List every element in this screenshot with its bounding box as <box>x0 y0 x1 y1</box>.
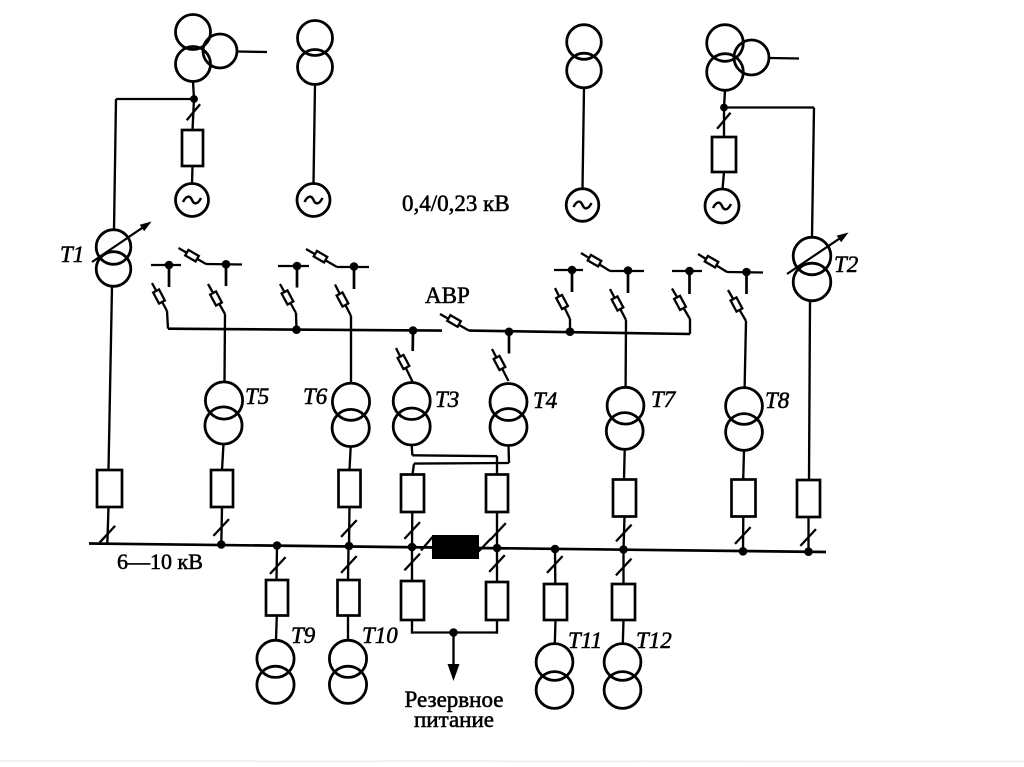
wire (group 2 right feeder drop) <box>350 316 352 383</box>
wire (0.4kV bus right section) <box>469 331 690 334</box>
switch-fuse blade (group 1 left feeder, open) <box>152 283 167 311</box>
node A (left junction) <box>190 95 198 103</box>
disconnector slash (T6 column) <box>341 520 357 537</box>
wire (node A to T1 branch) <box>116 98 194 100</box>
wire (T4 to crossover) <box>507 446 510 464</box>
svg-text:T12: T12 <box>636 628 672 653</box>
wire (T4 crossover fuse to bus) <box>411 512 414 547</box>
svg-text:T1: T1 <box>60 242 84 267</box>
wire (reserve right drop) <box>496 548 498 582</box>
fuse (T9 column) <box>266 580 288 616</box>
transformer T5 <box>205 382 242 419</box>
fuse F2 (T2 column) <box>797 480 820 517</box>
disconnector slash (reserve left below bus) <box>404 554 420 571</box>
transformer T3 <box>393 383 430 420</box>
node (group 1 right tap) <box>222 260 231 269</box>
wire (node B down to fuse) <box>723 108 725 138</box>
svg-text:T9: T9 <box>291 623 316 648</box>
arrow to reserve supply <box>452 633 454 667</box>
fuse (T3 crossover column) <box>486 475 508 513</box>
fuse (reserve left) <box>401 581 424 620</box>
disconnector slash (T10 column) <box>341 556 357 573</box>
AC source G2 (~) column 3 <box>566 189 599 222</box>
wire (reserve left drop) <box>411 547 413 581</box>
node (T4 crossover on 6-10kV bus) <box>408 543 417 552</box>
wire (group 3 right contact stub) <box>627 271 630 294</box>
fuse F1 (T1 column) <box>97 470 122 507</box>
wire (group 4 right contact stub) <box>745 272 748 294</box>
transformer T4 <box>490 384 527 421</box>
transformer T2 (with tap-change arrow) <box>793 237 831 275</box>
wire (fuse to AC source) <box>723 172 725 189</box>
transformer T1 (with tap-change arrow) <box>96 230 131 265</box>
network transformer (column 2) <box>298 21 333 56</box>
wire (T5 to fuse) <box>222 444 224 470</box>
fuse (left feeder column) <box>182 130 203 166</box>
node (reserve junction) <box>449 628 458 637</box>
switch-fuse blade (T3 feeder, open) <box>396 348 413 382</box>
disconnector slash (T7 column) <box>616 525 632 542</box>
disconnector slash (T4 crossover above bus) <box>404 522 420 539</box>
svg-text:T8: T8 <box>765 388 790 413</box>
wire (T5 fuse to bus) <box>220 507 223 545</box>
fuse (T10 column) <box>338 580 360 616</box>
switch-fuse blade (T4 feeder, open) <box>492 349 509 381</box>
wire (fuse F1 to bus) <box>107 507 108 545</box>
switch-fuse blade (group 4 left feeder, open) <box>672 289 690 320</box>
node (T4 tap on 0.4kV bus) <box>505 328 514 337</box>
wire (group 4 left feeder to 0.4kV bus) <box>689 319 691 334</box>
fuse (T5 column) <box>211 470 233 507</box>
network transformer (column 3) <box>567 25 602 60</box>
wire (column 2 drop) <box>314 85 316 184</box>
wire (group 4 right feeder drop) <box>745 321 746 388</box>
wire (group 1 right contact stub) <box>225 264 228 286</box>
disconnector slash (T12 column) <box>616 559 632 576</box>
switch-fuse blade (group 3 line tie, open) <box>581 253 610 271</box>
wire (group 3 right 0.4kV line segment) <box>610 270 644 272</box>
disconnector slash (T8 column) <box>735 527 751 544</box>
switch-fuse blade (group 4 right feeder, open) <box>728 290 746 321</box>
transformer T6 <box>332 383 369 420</box>
wire (T3 contact stub) <box>411 331 414 352</box>
wire (T3 crossover fuse to bus) <box>496 512 498 548</box>
node (T3 tap on 0.4kV bus) <box>409 326 418 335</box>
disconnector slash (T11 column) <box>547 556 563 573</box>
svg-text:T10: T10 <box>362 623 398 648</box>
wire (group 1 left 0.4kV line segment) <box>151 264 181 266</box>
wire (reserve junction) <box>412 631 497 633</box>
wire (group 2 left 0.4kV line segment) <box>278 265 309 267</box>
transformer T8 <box>726 388 763 425</box>
disconnector slash (T2 column) <box>800 529 816 546</box>
node B (right junction) <box>720 104 728 112</box>
fuse (T6 column) <box>339 470 361 507</box>
wire (T10 fuse to transformer) <box>347 616 349 641</box>
node (group 2 right tap) <box>350 262 359 271</box>
wire (T9 bus to fuse) <box>275 546 278 581</box>
switch-fuse blade (AVR tie, open) <box>440 314 469 331</box>
wire (T9 fuse to transformer) <box>275 616 278 641</box>
svg-text:T3: T3 <box>435 387 459 412</box>
fuse (T4 crossover column) <box>401 475 424 513</box>
wire (T2 down to fuse F2) <box>809 301 810 480</box>
bus 6-10 kV <box>89 544 826 553</box>
disconnector slash (below node A) <box>187 104 200 120</box>
wire (group 3 left contact stub) <box>571 270 574 292</box>
disconnector slash (reserve right below bus) <box>489 555 505 572</box>
transformer T7 <box>607 387 644 424</box>
node (group 4 left tap) <box>685 267 694 276</box>
wire (reserve left below fuse) <box>411 620 413 634</box>
transformer T9 <box>257 640 294 677</box>
wire (reserve right below fuse) <box>496 620 498 634</box>
wire (fuse F2 to bus) <box>807 517 809 552</box>
disconnector slash (T9 column) <box>270 557 286 574</box>
svg-text:T7: T7 <box>651 387 677 412</box>
wire (T11 fuse to transformer) <box>554 620 557 644</box>
fuse (T8 column) <box>732 480 756 517</box>
wire (group 3 left 0.4kV line segment) <box>554 269 583 271</box>
reserve tie fuse-switch (closed, filled) <box>432 535 479 559</box>
node (group 1 left tap) <box>165 261 174 270</box>
transformer T12 <box>604 644 641 681</box>
svg-text:6—10 кВ: 6—10 кВ <box>117 549 203 574</box>
disconnector slash (T5 column) <box>213 519 229 536</box>
wire (T12 fuse to transformer) <box>622 620 625 644</box>
node (T11 on 6-10kV bus) <box>551 545 560 554</box>
wire (group 3 right feeder drop) <box>624 320 627 387</box>
svg-text:T6: T6 <box>303 384 328 409</box>
wire (column 3 drop) <box>583 88 585 189</box>
disconnector slash (below node B) <box>717 113 730 129</box>
node (group 2 left tap) <box>293 262 302 271</box>
node (group 3 feeder on 0.4kV bus) <box>566 327 575 336</box>
wire (T6 fuse to bus) <box>348 507 351 546</box>
switch-fuse blade (group 4 line tie, open) <box>698 254 727 272</box>
svg-text:T11: T11 <box>568 628 602 653</box>
wire (group 2 left feeder to 0.4kV bus) <box>295 313 298 330</box>
fuse (T7 column) <box>613 480 636 517</box>
switch-fuse blade (group 2 left feeder, open) <box>280 284 296 313</box>
wire (group 1 right feeder drop) <box>223 314 226 382</box>
switch-fuse blade (group 2 line tie, open) <box>306 249 337 267</box>
svg-text:питание: питание <box>414 707 494 732</box>
wire (0.4kV bus left section) <box>168 329 442 331</box>
three-winding network transformer (top-left) <box>176 15 211 50</box>
svg-text:АВР: АВР <box>425 283 470 308</box>
switch-fuse blade (group 1 right feeder, open) <box>208 284 225 314</box>
wire (group 1 left feeder to 0.4kV bus) <box>167 311 168 329</box>
three-winding network transformer (top-right) <box>707 25 744 62</box>
wire (top-left transformer to node A) <box>193 82 194 100</box>
switch-fuse blade (group 2 right feeder, open) <box>335 285 351 317</box>
wire (T7 to fuse) <box>623 449 626 479</box>
svg-text:T4: T4 <box>533 388 557 413</box>
wire (node B to T2 branch) <box>724 106 814 108</box>
fuse (right feeder column) <box>712 137 736 172</box>
wire (fuse to AC source) <box>191 166 194 184</box>
wire (top-left transformer right lead) <box>237 50 267 53</box>
node (T7/T12 on 6-10kV bus) <box>619 545 628 554</box>
disconnector slash (T1 column) <box>100 526 116 543</box>
wire (group 4 left contact stub) <box>688 271 691 294</box>
wire (T7 fuse to bus) <box>624 517 625 550</box>
wire (group 2 right contact stub) <box>353 267 356 290</box>
fuse (T11 column) <box>544 584 567 620</box>
svg-text:0,4/0,23 кВ: 0,4/0,23 кВ <box>402 191 510 216</box>
wire (T8 fuse to bus) <box>742 517 745 552</box>
wire (top-right transformer right lead) <box>770 57 799 60</box>
AC source G1 (~) column 2 <box>297 184 330 217</box>
node (group 2 feeder on 0.4kV bus) <box>292 325 301 334</box>
node (group 3 right tap) <box>624 266 633 275</box>
fuse (T12 column) <box>612 584 635 620</box>
wire (T3 to crossover) <box>411 445 414 455</box>
wire (T10 bus to fuse) <box>347 547 350 581</box>
AC source (~) left feeder <box>176 184 209 217</box>
switch-fuse blade (group 3 right feeder, open) <box>610 289 626 320</box>
wire (group 2 right 0.4kV line segment) <box>337 266 369 268</box>
wire (group 3 left feeder to 0.4kV bus) <box>569 319 571 332</box>
fuse (reserve right) <box>486 582 508 620</box>
wire (T12 bus to fuse) <box>622 550 624 585</box>
wire (T6 to fuse) <box>350 447 351 470</box>
node (T2 on 6-10kV bus) <box>804 547 813 556</box>
node (T9 on 6-10kV bus) <box>273 541 282 550</box>
disconnector slash (T3 crossover above bus) <box>490 523 506 540</box>
wire (T11 bus to fuse) <box>554 549 557 584</box>
switch-fuse blade (group 3 left feeder, open) <box>555 288 570 319</box>
wire (group 1 left contact stub) <box>168 265 171 287</box>
node (T8 on 6-10kV bus) <box>739 547 748 556</box>
node (T3 crossover on 6-10kV bus) <box>493 544 502 553</box>
svg-text:T2: T2 <box>834 252 858 277</box>
svg-text:T5: T5 <box>245 384 269 409</box>
node (T5 on 6-10kV bus) <box>217 540 226 549</box>
node (group 3 left tap) <box>568 266 577 275</box>
transformer T10 <box>329 640 366 677</box>
wire (group 2 left contact stub) <box>296 266 299 288</box>
AC source (~) right feeder <box>705 189 739 223</box>
wire (top-right transformer to node B) <box>724 91 725 108</box>
transformer T11 <box>536 644 573 681</box>
switch-fuse blade (group 1 line tie, open) <box>179 248 207 264</box>
wire (T8 to fuse) <box>742 450 745 479</box>
wire (group 1 right 0.4kV line segment) <box>206 263 242 266</box>
wire (group 4 left 0.4kV line segment) <box>672 270 702 272</box>
wire (group 4 right 0.4kV line segment) <box>727 271 763 274</box>
wire (T4 contact stub) <box>508 332 511 354</box>
node (T6/T10 on 6-10kV bus) <box>345 542 354 551</box>
node (group 4 right tap) <box>742 268 751 277</box>
wire (T1 down to fuse F1) <box>109 286 113 470</box>
wire (node A down to fuse) <box>193 99 195 130</box>
